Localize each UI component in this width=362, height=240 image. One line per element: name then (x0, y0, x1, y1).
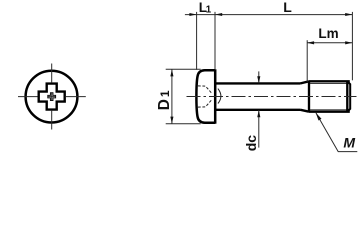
dim line Lm (307, 42, 352, 44)
arrow L1 outside left (189, 13, 196, 16)
dim line dc upper (258, 71, 260, 83)
ext line L1/L shared (214, 12, 216, 69)
side view: shaft top line (215, 82, 300, 84)
front view: head circle (26, 71, 78, 123)
arrow dc bottom (257, 110, 260, 117)
leader line M (316, 113, 357, 152)
side view: thread run-up chamfer bottom (301, 110, 310, 112)
ext line L1 left (196, 12, 198, 70)
side view: head bearing face (214, 69, 217, 123)
arrow dc top (257, 76, 260, 83)
side view: end face with chamfer corners (348, 82, 351, 112)
ext line Lm left (306, 40, 308, 82)
side view: thread root line bottom (310, 109, 348, 111)
ext line D1 bottom (166, 123, 201, 125)
front view: phillips recess outer cross (39, 84, 65, 110)
svg-text:1: 1 (206, 5, 212, 16)
side view: recess hidden line upper (198, 86, 212, 93)
svg-text:dc: dc (243, 135, 259, 152)
front view: horizontal centerline (18, 96, 86, 98)
dim line D1 (171, 69, 173, 124)
side view: thread major diameter bottom (309, 111, 350, 113)
side view: end chamfer edge (346, 81, 348, 111)
dimensions (166, 12, 358, 152)
arrow Lm right (345, 41, 352, 44)
side view: thread major diameter top (309, 80, 350, 82)
side view: head outline (196, 70, 215, 122)
arrowheads (170, 13, 352, 124)
ext line D1 top (166, 68, 201, 70)
front view: phillips recess inner plus (48, 93, 56, 101)
side view: neck fillet arc (218, 89, 221, 104)
ext line right end (351, 12, 353, 80)
side view: thread root line top (310, 82, 348, 84)
side view: recess hidden line lower (198, 100, 212, 107)
arrow L left (215, 13, 222, 16)
dim line dc lower (258, 110, 260, 148)
svg-text:M: M (343, 135, 355, 151)
svg-text:D1: D1 (156, 88, 173, 110)
front view: vertical centerline (51, 64, 53, 130)
arrow D1 bottom (170, 117, 173, 124)
side view: axis centerline (187, 96, 357, 98)
arrow Lm left (307, 41, 314, 44)
arrow D1 top (170, 69, 173, 76)
dim line L1 and L (185, 14, 353, 16)
side view: shaft bottom line (215, 109, 300, 111)
svg-text:L: L (283, 0, 292, 15)
side view: thread run-up chamfer top (301, 81, 310, 83)
svg-text:Lm: Lm (318, 26, 338, 41)
arrow L right (345, 13, 352, 16)
side view: thread start edge (308, 81, 310, 111)
arrow M leader (316, 113, 322, 121)
